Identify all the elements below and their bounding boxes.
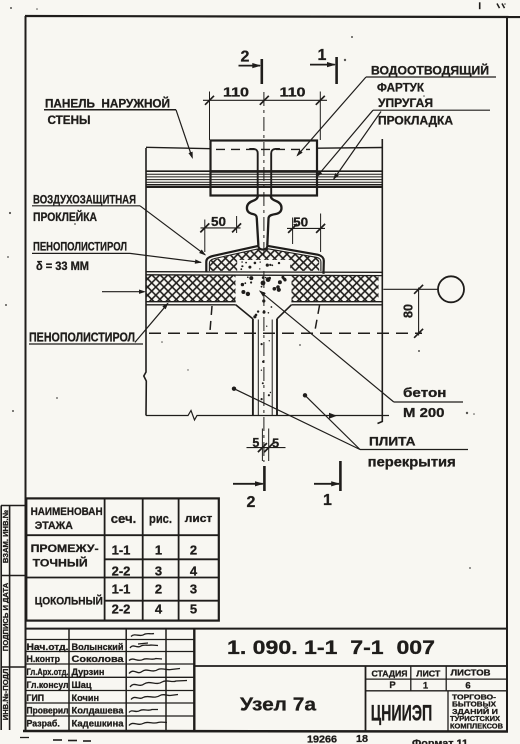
concrete patch in tent (237, 260, 290, 271)
svg-text:бетон: бетон (403, 385, 447, 400)
svg-text:ПРОМЕЖУ-: ПРОМЕЖУ- (31, 543, 99, 555)
svg-text:ГИП: ГИП (27, 693, 45, 703)
svg-text:2: 2 (247, 494, 256, 511)
svg-text:Волынский: Волынский (72, 642, 124, 652)
svg-text:КОМПЛЕКСОВ: КОМПЛЕКСОВ (450, 722, 503, 731)
tent inner outline (209, 249, 259, 271)
tent insulation hatch (210, 248, 319, 271)
svg-text:2: 2 (241, 49, 250, 66)
wire right break edge (378, 139, 383, 424)
top-right marks (479, 2, 481, 9)
svg-text:1: 1 (323, 492, 332, 509)
svg-text:ПЛИТА: ПЛИТА (369, 435, 416, 449)
frame bottom (23, 730, 508, 733)
svg-text:СТАДИЯ: СТАДИЯ (372, 668, 408, 678)
svg-text:Дурзин: Дурзин (72, 667, 105, 677)
svg-text:Формат 11: Формат 11 (412, 738, 468, 744)
wire leader to node circle (383, 288, 438, 290)
svg-text:лист: лист (185, 513, 213, 525)
section mark 1 top (310, 64, 335, 66)
svg-text:5: 5 (252, 436, 259, 450)
left stamp strip (0, 506, 2, 731)
node centerline axis (263, 92, 265, 462)
dim 80 vertical (418, 288, 420, 336)
svg-text:ПЕНОПОЛИСТИРОЛ: ПЕНОПОЛИСТИРОЛ (33, 240, 127, 254)
svg-text:УПРУГАЯ: УПРУГАЯ (378, 96, 433, 110)
section mark 2 bottom (233, 483, 263, 485)
svg-text:ЛИСТ: ЛИСТ (416, 668, 441, 678)
svg-text:Гл.Арх.отд.: Гл.Арх.отд. (27, 667, 69, 677)
wire dashed hidden edge left (210, 306, 212, 331)
svg-text:Р: Р (389, 680, 396, 691)
wire horizontal pointer (102, 291, 144, 293)
section mark 1 bottom (314, 483, 339, 485)
floors table (26, 498, 219, 620)
svg-text:1: 1 (423, 681, 429, 692)
svg-text:1: 1 (155, 543, 162, 558)
svg-text:ПАНЕЛЬ НАРУЖНОЙ: ПАНЕЛЬ НАРУЖНОЙ (45, 96, 170, 111)
svg-text:перекрытия: перекрытия (368, 455, 456, 470)
svg-text:80: 80 (402, 304, 416, 318)
svg-text:Н.контр: Н.контр (27, 654, 61, 664)
svg-text:5: 5 (190, 602, 197, 617)
wire band top lines (146, 271, 382, 274)
svg-text:Соколова: Соколова (72, 654, 125, 664)
svg-text:Гл.консул: Гл.консул (27, 680, 69, 690)
wire dashed line in block (216, 148, 310, 150)
svg-text:Кочин: Кочин (72, 693, 100, 703)
svg-text:3: 3 (155, 564, 162, 579)
svg-text:2: 2 (190, 543, 197, 558)
svg-text:М 200: М 200 (403, 405, 445, 420)
sealing profile knob (247, 196, 259, 246)
svg-text:ВОДООТВОДЯЩИЙ: ВОДООТВОДЯЩИЙ (371, 63, 489, 78)
svg-text:ЦНИИЭП: ЦНИИЭП (371, 701, 433, 726)
svg-text:1. 090. 1-1 7-1 007: 1. 090. 1-1 7-1 007 (227, 638, 435, 659)
svg-text:Кадешкина: Кадешкина (72, 718, 125, 728)
upper panel block (211, 141, 318, 196)
svg-text:50: 50 (293, 216, 308, 230)
frame right (506, 17, 508, 732)
svg-text:6: 6 (465, 681, 470, 692)
svg-text:ТОЧНЫЙ: ТОЧНЫЙ (33, 557, 88, 570)
dim 50 left (201, 227, 241, 229)
svg-text:ЦОКОЛЬНЫЙ: ЦОКОЛЬНЫЙ (35, 595, 103, 608)
svg-text:3: 3 (190, 582, 197, 597)
svg-text:Колдашева: Колдашева (72, 705, 125, 715)
svg-text:рис.: рис. (149, 512, 172, 526)
svg-text:5: 5 (272, 437, 279, 451)
wire left panel top edge (146, 147, 211, 148)
svg-text:ВЗАМ. ИНВ.№: ВЗАМ. ИНВ.№ (1, 510, 10, 563)
svg-text:110: 110 (223, 86, 249, 100)
tent outer outline (206, 246, 258, 272)
profile drip tip (258, 246, 267, 250)
svg-text:ЭТАЖА: ЭТАЖА (35, 520, 73, 532)
water apron section (249, 149, 257, 195)
wire left break edge (144, 148, 147, 416)
svg-text:110: 110 (280, 86, 306, 100)
svg-text:ФАРТУК: ФАРТУК (377, 81, 425, 95)
frame top (25, 16, 520, 17)
funnel to rib (236, 305, 253, 319)
svg-text:2-2: 2-2 (112, 602, 131, 617)
svg-text:19266: 19266 (307, 734, 337, 744)
svg-text:2-2: 2-2 (112, 564, 131, 579)
title block (26, 628, 508, 630)
svg-text:ПЕНОПОЛИСТИРОЛ: ПЕНОПОЛИСТИРОЛ (29, 331, 135, 345)
section mark 2 top (239, 65, 261, 67)
floor band hatch right (292, 276, 379, 302)
svg-text:ПРОКЛЕЙКА: ПРОКЛЕЙКА (33, 209, 97, 224)
svg-text:1-1: 1-1 (112, 543, 131, 558)
svg-text:4: 4 (155, 602, 163, 617)
frame left (25, 16, 27, 732)
svg-text:Проверил: Проверил (27, 705, 69, 715)
dim 110 (203, 99, 327, 101)
svg-text:ПРОКЛАДКА: ПРОКЛАДКА (378, 114, 453, 128)
svg-text:СТЕНЫ: СТЕНЫ (48, 113, 91, 127)
svg-text:Разраб.: Разраб. (27, 718, 60, 728)
svg-text:ПОДПИСЬ И ДАТА: ПОДПИСЬ И ДАТА (1, 582, 10, 651)
svg-text:Шац: Шац (72, 680, 92, 690)
svg-text:18: 18 (356, 733, 368, 744)
svg-text:1: 1 (318, 47, 327, 64)
svg-text:Узел 7а: Узел 7а (240, 695, 317, 715)
svg-text:ВОЗДУХОЗАЩИТНАЯ: ВОЗДУХОЗАЩИТНАЯ (33, 193, 136, 207)
svg-text:2: 2 (155, 582, 162, 597)
svg-text:50: 50 (211, 215, 226, 229)
wire right panel top edge (318, 147, 383, 150)
svg-text:δ = 33 ММ: δ = 33 ММ (36, 259, 89, 273)
wire slab break line (146, 411, 389, 421)
svg-text:4: 4 (190, 564, 198, 579)
svg-text:ЛИСТОВ: ЛИСТОВ (451, 668, 491, 678)
wire dashed hidden edge right (315, 305, 320, 333)
svg-text:НАИМЕНОВАН: НАИМЕНОВАН (31, 506, 103, 518)
svg-text:Нач.отд.: Нач.отд. (27, 642, 69, 652)
scan specks (10, 7, 12, 9)
dim 5x5 (261, 429, 263, 462)
node marker circle (438, 276, 464, 302)
dim 50 right (287, 227, 325, 229)
svg-text:1-1: 1-1 (112, 582, 131, 597)
rib walls (252, 319, 254, 416)
floor band hatch left (146, 276, 236, 302)
wire dashed level line (149, 332, 422, 334)
wire gasket band lines (146, 170, 382, 172)
concrete core speckles (261, 286, 263, 288)
svg-text:сеч.: сеч. (111, 512, 137, 526)
wire band bottom lines (146, 301, 236, 303)
svg-text:ИНВ.№-ПОДЛ: ИНВ.№-ПОДЛ (1, 669, 10, 721)
